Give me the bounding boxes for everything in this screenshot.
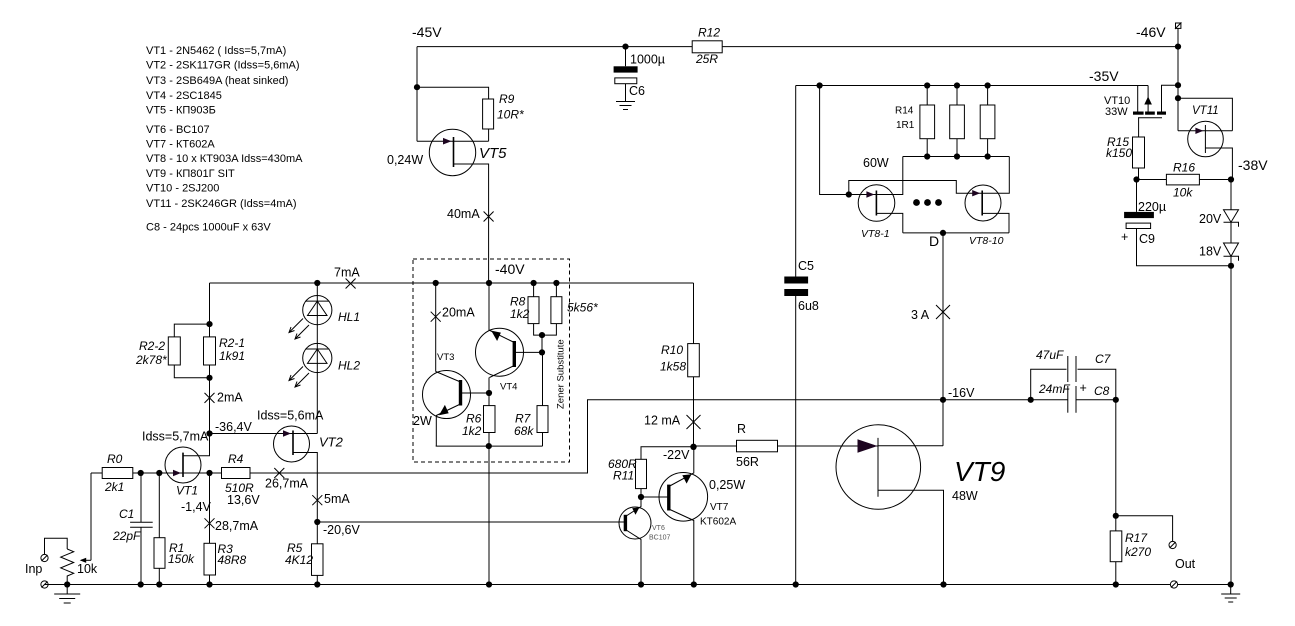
svg-text:BC107: BC107 <box>649 535 671 542</box>
current mark 40mA <box>484 212 494 222</box>
wire VT8 gate feed from -35V <box>820 86 849 195</box>
terminal -46V <box>1175 22 1181 29</box>
svg-text:68k: 68k <box>514 424 534 438</box>
svg-text:R2-1: R2-1 <box>219 336 245 350</box>
wire -46V vertical <box>1177 28 1179 130</box>
svg-text:R10: R10 <box>661 343 683 357</box>
svg-text:-1,4V: -1,4V <box>181 500 212 514</box>
wire LED chain <box>316 283 318 434</box>
svg-text:220µ: 220µ <box>1138 200 1166 214</box>
wire R15/R16 node <box>1137 179 1232 181</box>
svg-text:40mA: 40mA <box>447 207 480 221</box>
svg-text:7mA: 7mA <box>334 266 360 280</box>
current mark 3A <box>936 305 950 319</box>
svg-text:VT2: VT2 <box>319 435 344 450</box>
node -20,6V <box>314 519 320 525</box>
resistor R 56R <box>737 440 778 452</box>
svg-text:C5: C5 <box>798 259 814 273</box>
wire R9 top feed <box>417 87 489 141</box>
svg-text:VT11 - 2SK246GR (Idss=4mA): VT11 - 2SK246GR (Idss=4mA) <box>146 198 297 210</box>
svg-text:56R: 56R <box>736 455 759 469</box>
svg-text:R: R <box>737 422 746 436</box>
svg-text:-38V: -38V <box>1238 157 1268 173</box>
current mark 28,7mA <box>205 518 215 528</box>
svg-text:R16: R16 <box>1173 161 1195 175</box>
svg-text:VT8 - 10 x КТ903A Idss=430m: VT8 - 10 x КТ903A Idss=430mA <box>146 153 303 165</box>
svg-text:C7: C7 <box>1095 352 1112 366</box>
terminal Inp top <box>41 554 48 561</box>
svg-text:VT6: VT6 <box>652 525 665 532</box>
capacitor C8 <box>1028 386 1116 413</box>
svg-text:3 A: 3 A <box>911 308 930 322</box>
dots ellipsis between VT8 <box>913 199 920 206</box>
svg-text:+: + <box>1121 230 1128 244</box>
svg-text:1R1: 1R1 <box>896 120 915 131</box>
svg-text:VT1: VT1 <box>176 484 198 498</box>
svg-text:HL2: HL2 <box>338 359 360 373</box>
node junction at R9 top <box>414 84 420 90</box>
svg-text:VT9: VT9 <box>954 456 1005 487</box>
svg-text:VT11: VT11 <box>1192 105 1219 117</box>
wire VT8 collector bus <box>903 156 1010 158</box>
svg-text:1k58: 1k58 <box>660 360 686 374</box>
wire -20,6V to VT6 base <box>317 521 625 523</box>
svg-text:R0: R0 <box>107 452 123 466</box>
svg-text:24mF: 24mF <box>1038 382 1070 396</box>
svg-text:R2-2: R2-2 <box>139 339 165 353</box>
svg-text:VT8-1: VT8-1 <box>861 228 890 240</box>
svg-text:18V: 18V <box>1199 245 1222 259</box>
node -36,4V <box>206 430 212 436</box>
transistor VT1 <box>165 447 201 483</box>
resistor R2-1 <box>204 337 216 365</box>
svg-text:Idss=5,7mA: Idss=5,7mA <box>142 430 209 444</box>
wire -22V to R(56R) and VT9 gate <box>694 445 879 447</box>
dashed box Zener Substitute <box>413 259 570 462</box>
capacitor C1 <box>130 473 153 585</box>
wire -35V rail <box>796 85 1148 87</box>
svg-text:VT9 - КП801Г SIT: VT9 - КП801Г SIT <box>146 168 235 180</box>
capacitor C6 <box>614 44 638 102</box>
resistor R17 <box>1115 516 1117 585</box>
wire down to ground rail <box>488 446 490 584</box>
wire VT3 emitter column <box>435 283 437 372</box>
wire to Out terminal <box>1116 516 1173 542</box>
transistor VT8-10 <box>965 157 1009 233</box>
svg-text:VT8-10: VT8-10 <box>969 235 1004 247</box>
current mark 12mA <box>687 415 701 429</box>
transistor VT7 <box>641 447 708 585</box>
svg-text:-35V: -35V <box>1089 68 1119 84</box>
svg-text:-20,6V: -20,6V <box>323 523 360 537</box>
svg-text:2mA: 2mA <box>217 391 243 405</box>
svg-text:5k56*: 5k56* <box>567 301 598 315</box>
current mark 20mA <box>431 312 441 322</box>
resistor R6 <box>488 393 490 446</box>
svg-text:1k2: 1k2 <box>462 424 482 438</box>
svg-text:VT4 - 2SC1845: VT4 - 2SC1845 <box>146 90 222 102</box>
svg-text:VT3: VT3 <box>437 352 454 363</box>
resistor R5 <box>316 522 318 585</box>
svg-text:-45V: -45V <box>412 24 442 40</box>
wire -36,4V to VT2 gate <box>210 433 318 435</box>
ground right <box>1228 581 1234 587</box>
LED HL2 <box>289 343 332 387</box>
parts list text <box>146 45 303 234</box>
LED HL1 <box>289 296 332 340</box>
svg-text:33W: 33W <box>1105 106 1128 118</box>
svg-text:-46V: -46V <box>1136 24 1166 40</box>
wire VT4 emitter column <box>488 283 490 331</box>
svg-text:60W: 60W <box>863 156 889 170</box>
resistor 5k56 <box>551 297 562 324</box>
svg-text:26,7mA: 26,7mA <box>265 477 309 491</box>
svg-text:-16V: -16V <box>948 386 975 400</box>
svg-text:VT5: VT5 <box>479 145 507 162</box>
wire R2 column <box>183 283 210 456</box>
transistor VT8-1 <box>849 157 903 233</box>
svg-text:C8: C8 <box>1094 384 1110 398</box>
wire VT8 emitter bus <box>903 232 1009 234</box>
svg-text:-40V: -40V <box>495 261 525 277</box>
svg-text:2W: 2W <box>413 414 432 428</box>
node -16V <box>940 397 946 403</box>
svg-text:D: D <box>929 233 939 249</box>
wire -45V top rail <box>417 46 1178 48</box>
svg-text:6u8: 6u8 <box>798 299 819 313</box>
transistor VT2 <box>274 426 318 522</box>
svg-text:22pF: 22pF <box>112 529 141 543</box>
transistor VT6 <box>619 497 651 585</box>
svg-text:C8 - 24pcs 1000uF x 63V: C8 - 24pcs 1000uF x 63V <box>146 222 271 234</box>
svg-text:25R: 25R <box>695 52 718 66</box>
transistor VT4 <box>476 328 543 393</box>
resistor R15 <box>1133 137 1145 168</box>
node D <box>940 230 946 236</box>
transistor VT5 <box>417 129 489 283</box>
wire C8 node down to R17 <box>1115 400 1117 516</box>
svg-text:C9: C9 <box>1139 232 1155 246</box>
capacitor C9 <box>1124 180 1231 266</box>
svg-text:R9: R9 <box>499 92 515 106</box>
resistor R2-2 loop <box>168 324 209 378</box>
transistor VT10 (P-MOSFET) <box>1133 85 1178 137</box>
resistor R9 <box>483 99 494 129</box>
wire ground rail <box>45 584 1231 586</box>
resistor R11 <box>636 459 647 488</box>
current mark 7mA <box>346 279 356 289</box>
svg-text:Idss=5,6mA: Idss=5,6mA <box>257 409 324 423</box>
current mark 26,7mA <box>274 468 284 478</box>
svg-text:20V: 20V <box>1199 212 1222 226</box>
svg-text:VT6 - BC107: VT6 - BC107 <box>146 124 210 136</box>
svg-text:VT3 - 2SB649A (heat sinked): VT3 - 2SB649A (heat sinked) <box>146 75 288 87</box>
resistor R7 <box>542 352 544 446</box>
svg-text:4K12: 4K12 <box>285 553 313 567</box>
svg-text:10k: 10k <box>77 562 98 576</box>
resistor R16 <box>1166 174 1199 185</box>
terminal Out <box>1169 541 1176 548</box>
ground under pot <box>54 585 80 604</box>
svg-text:k150: k150 <box>1106 146 1132 160</box>
svg-text:R4: R4 <box>228 452 244 466</box>
svg-text:1k2: 1k2 <box>510 307 530 321</box>
svg-text:C6: C6 <box>629 84 645 98</box>
svg-text:47uF: 47uF <box>1036 348 1064 362</box>
zener diode 18V <box>1224 243 1239 261</box>
svg-text:10R*: 10R* <box>497 108 524 122</box>
svg-text:2k1: 2k1 <box>104 480 124 494</box>
wire -45V drop to VT5 gate <box>416 47 418 142</box>
svg-text:Inp: Inp <box>25 562 42 576</box>
wire zener box bottom <box>436 445 543 447</box>
svg-text:R11: R11 <box>613 469 634 483</box>
svg-text:VT5 - КП903Б: VT5 - КП903Б <box>146 105 216 117</box>
svg-text:VT1 - 2N5462 ( Idss=5,7mA): VT1 - 2N5462 ( Idss=5,7mA) <box>146 45 286 57</box>
wire -40V rail <box>210 282 694 284</box>
wire -22V to R11 <box>641 447 694 460</box>
node -22V <box>690 444 696 450</box>
svg-text:R12: R12 <box>698 26 720 40</box>
svg-text:20mA: 20mA <box>442 306 475 320</box>
terminal Inp ground <box>41 581 48 588</box>
svg-text:HL1: HL1 <box>338 310 360 324</box>
svg-text:13,6V: 13,6V <box>227 493 260 507</box>
svg-text:0,25W: 0,25W <box>709 478 745 492</box>
svg-text:1k91: 1k91 <box>219 349 245 363</box>
resistor R8 <box>528 297 539 324</box>
svg-text:VT7 - КТ602A: VT7 - КТ602A <box>146 139 215 151</box>
svg-text:VT4: VT4 <box>500 382 517 393</box>
svg-text:R14: R14 <box>895 106 914 117</box>
current mark 2mA <box>205 393 215 403</box>
svg-text:VT10 - 2SJ200: VT10 - 2SJ200 <box>146 183 219 195</box>
ground under C6 <box>616 102 635 110</box>
svg-text:12 mA: 12 mA <box>644 414 681 428</box>
svg-text:R17: R17 <box>1125 531 1148 545</box>
svg-text:2k78*: 2k78* <box>135 353 167 367</box>
svg-text:Zener Substitute: Zener Substitute <box>556 339 567 409</box>
wire VT8 gate bus <box>849 181 982 195</box>
svg-text:KT602A: KT602A <box>700 517 736 528</box>
svg-text:+: + <box>1080 381 1087 395</box>
potentiometer 10k <box>45 473 92 585</box>
svg-text:48W: 48W <box>952 489 978 503</box>
svg-text:-22V: -22V <box>663 448 690 462</box>
svg-text:-36,4V: -36,4V <box>215 420 252 434</box>
svg-text:150k: 150k <box>168 552 195 566</box>
svg-text:48R8: 48R8 <box>218 553 247 567</box>
svg-text:5mA: 5mA <box>324 492 350 506</box>
transistor VT11 <box>1178 98 1232 179</box>
capacitor C5 <box>784 86 808 585</box>
svg-text:VT2 - 2SK117GR (Idss=5,6mA): VT2 - 2SK117GR (Idss=5,6mA) <box>146 60 300 72</box>
resistor R3 <box>209 473 211 585</box>
wire zener chain <box>1230 180 1232 585</box>
current mark 5mA <box>312 495 322 505</box>
zener diode 20V <box>1224 210 1239 227</box>
resistor R0 <box>102 468 133 479</box>
wire D to VT9 drain <box>942 233 944 446</box>
resistor R12 <box>692 41 722 53</box>
resistor R14 bank <box>920 86 995 157</box>
svg-text:C1: C1 <box>119 507 134 521</box>
svg-text:Out: Out <box>1175 557 1196 571</box>
resistor R10 <box>693 283 695 447</box>
svg-text:1000µ: 1000µ <box>630 53 665 67</box>
terminal Out ground <box>1170 581 1177 588</box>
svg-text:k270: k270 <box>1125 545 1151 559</box>
svg-text:10k: 10k <box>1173 186 1193 200</box>
svg-text:VT7: VT7 <box>710 502 729 513</box>
svg-text:28,7mA: 28,7mA <box>215 519 259 533</box>
capacitor C7 <box>1031 356 1116 400</box>
transistor VT9 <box>835 400 944 585</box>
resistor R4 <box>222 468 251 479</box>
svg-text:0,24W: 0,24W <box>387 153 423 167</box>
transistor VT3 <box>423 371 490 447</box>
resistor R1 <box>158 473 160 585</box>
wire main signal line <box>91 400 1068 473</box>
wire R8/5k56 bottoms <box>534 283 557 352</box>
